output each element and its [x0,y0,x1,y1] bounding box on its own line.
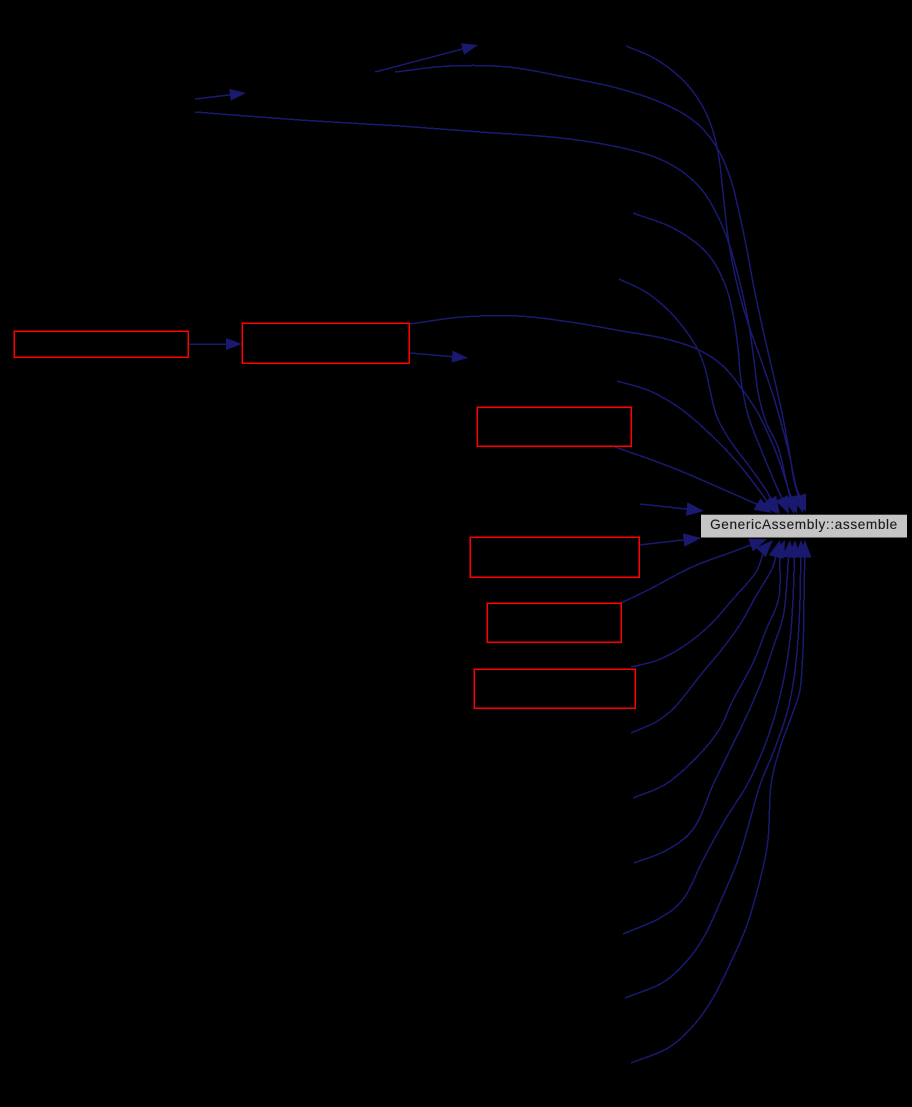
edge B10 [631,553,805,1063]
arrowhead edge B10 [798,540,812,558]
arrowhead edge B7 [782,540,796,558]
arrowhead edge U6 [785,495,798,514]
arrowhead edge U8 [754,498,773,513]
edge B8 [623,553,795,934]
edge U3 [195,112,791,501]
edge L2 [639,539,689,545]
arrowhead edge B9 [794,540,808,558]
edge B6 [633,552,780,798]
arrowhead edge L2 [683,533,701,547]
edge S2 [195,94,234,99]
edge node1-node2 [189,343,230,345]
svg-text:GenericAssembly::assemble: GenericAssembly::assemble [710,517,898,532]
node3 box [477,407,631,446]
arrowhead edge S3 from node2 [452,351,469,363]
edge S3 from node2 [410,353,456,357]
arrowhead edge S2 [229,89,246,101]
node1 box [14,331,188,357]
arrowhead edge node1-node2 [226,338,242,350]
arrowhead edge U3 [783,495,796,514]
edge U4 [633,213,784,502]
edge B4 [631,549,764,667]
node4 box [470,537,639,577]
node6 box [474,669,635,708]
arrowhead edge L1 [686,502,704,516]
node GenericAssembly::assemble [701,515,907,538]
arrowhead edge B6 [772,540,785,559]
edge B7 [634,553,789,863]
arrowhead edge U7 [761,497,778,514]
edge U7 [617,381,769,505]
edge S1 [375,48,466,72]
edge B5 [631,553,777,734]
edge L1 [640,504,692,510]
edge U2 [395,65,800,500]
edge B3 [621,544,755,604]
arrowhead edge S1 [461,43,478,55]
node5 box [487,603,621,642]
arrowhead edge U5 [765,496,780,514]
arrowhead edge B5 [769,540,782,559]
edge B9 [625,553,801,998]
edge U1 [626,46,801,500]
edge U8 [615,447,761,506]
arrowhead edge B3 [748,539,767,552]
arrowhead edge B4 [756,540,773,557]
arrowhead edge U2 [792,494,805,513]
arrowhead edge U4 [776,495,789,514]
edge U5 [619,279,773,503]
arrowhead edge B8 [788,540,802,558]
edge U6 [410,316,793,502]
node2 box [242,323,409,363]
arrowhead edge U1 [793,493,806,512]
